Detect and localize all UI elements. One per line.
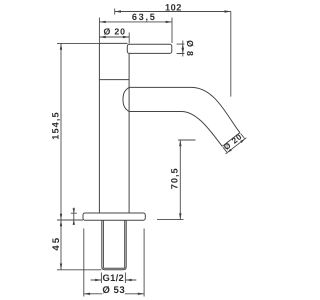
extension: body left edge up [98, 18, 100, 44]
dim 102: extension line down to spout end [230, 12, 232, 97]
svg-text:Ø 53: Ø 53 [102, 285, 125, 296]
body joint line [99, 79, 129, 81]
extension: lever end up [171, 18, 173, 44]
dim Ø20 top: line [99, 36, 129, 38]
dim 63,5: line [99, 21, 172, 23]
spout top edge [129, 87, 240, 132]
dim 70,5: top tick [178, 139, 196, 141]
arrow Ø20 outlet upper [240, 139, 245, 143]
arrow Ø53 right [138, 293, 144, 295]
svg-text:154,5: 154,5 [50, 111, 60, 140]
arrow 154,5 top [60, 43, 62, 49]
arrow Ø20 outlet lower [227, 149, 232, 153]
arrow 63,5 left [99, 21, 105, 23]
spout bottom edge [129, 112, 222, 147]
arrow 45 top [60, 220, 62, 226]
svg-text:102: 102 [165, 3, 182, 13]
lever handle [127, 44, 172, 53]
arrow G1/2 right (pointing left) [125, 279, 131, 281]
svg-text:Ø 8: Ø 8 [185, 40, 195, 57]
dim 154,5/45: shared tick [57, 219, 83, 221]
dim Ø20 outlet: extension ticks [223, 134, 245, 153]
extension: body right edge up [128, 33, 130, 44]
dim 102: line and tick [115, 9, 231, 15]
dim G1/2: ticks [101, 273, 125, 284]
arrow Ø20 left [99, 36, 105, 38]
arrow plate bottom (outside, pointing up) [73, 220, 75, 225]
svg-text:70,5: 70,5 [170, 167, 180, 189]
arrow 45 bottom [60, 264, 62, 270]
dim 154,5: vertical line [60, 43, 62, 220]
spout-body fillet [123, 87, 129, 111]
dim 154,5: top tick to body [57, 42, 99, 44]
arrow 70,5 top [179, 140, 181, 146]
arrow Ø8 up [182, 44, 184, 49]
arrow Ø8 down [182, 48, 184, 53]
faucet body outline [99, 43, 129, 213]
threaded shank outer [102, 220, 126, 270]
arrow 154,5 bottom [60, 214, 62, 220]
spout end face [222, 133, 240, 147]
arrow 102 left [115, 10, 121, 12]
arrow Ø53 left [84, 293, 90, 295]
dim 70,5: vertical line [179, 140, 181, 220]
arrow G1/2 left (pointing right) [95, 279, 101, 281]
arrow 102 right [225, 10, 231, 12]
svg-text:G1/2: G1/2 [103, 272, 125, 283]
dim Ø20 outlet: dimension line [226, 138, 247, 154]
svg-text:63,5: 63,5 [132, 12, 157, 22]
dim 45: vertical line [60, 220, 62, 270]
svg-text:Ø 20: Ø 20 [104, 26, 126, 36]
arrow 70,5 bottom [179, 213, 181, 219]
plate thickness dim: line and ticks [71, 208, 77, 225]
arrow Ø20 right [123, 36, 129, 38]
dim 45: bottom tick [57, 269, 102, 271]
base plate [83, 213, 145, 220]
dim G1/2: arrow shafts [91, 279, 137, 281]
dim Ø8: ticks [177, 44, 185, 53]
dim Ø53: dimension line segments [84, 293, 144, 295]
dim Ø53: extension stubs [84, 229, 144, 297]
dim Ø8: vertical line [182, 41, 184, 57]
arrow 63,5 right [166, 21, 172, 23]
arrow plate top (outside, pointing down) [73, 208, 75, 213]
dim 70,5: bottom tick [157, 219, 184, 221]
threaded shank inner thread lines [103, 220, 124, 268]
svg-text:45: 45 [51, 236, 62, 251]
